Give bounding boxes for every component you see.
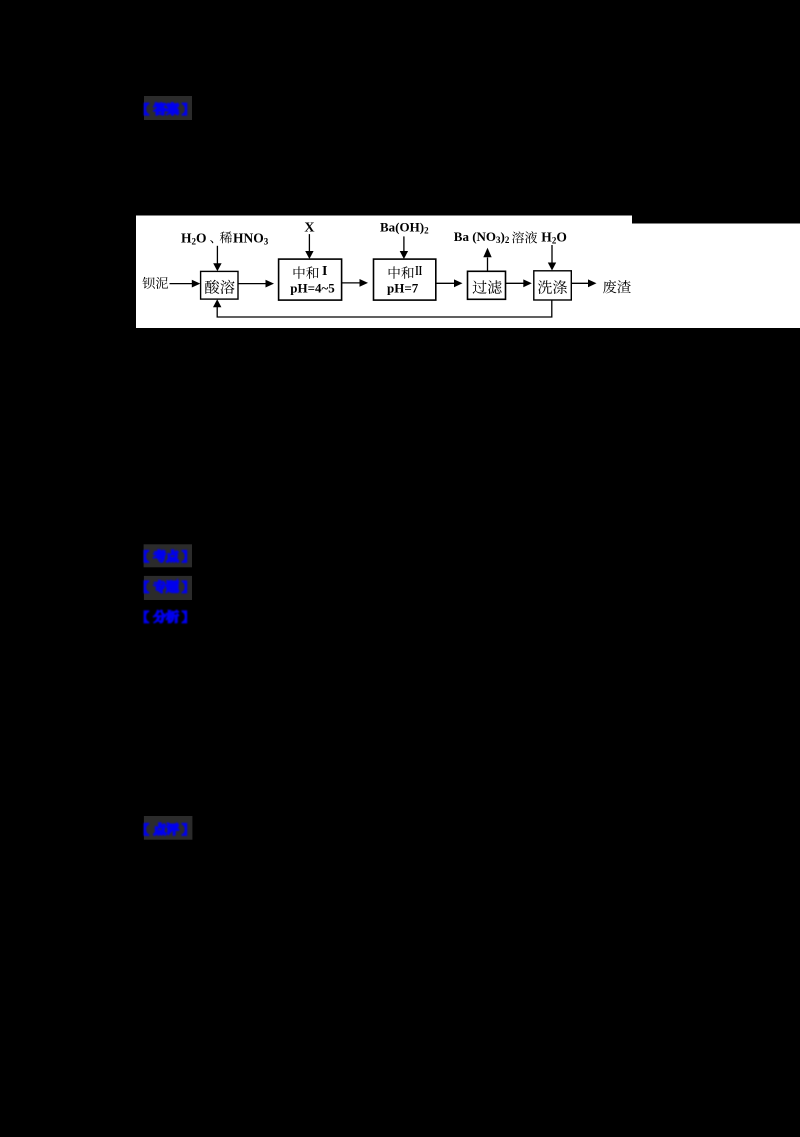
label 【答案】 xyxy=(144,103,186,115)
text 过滤 xyxy=(473,280,487,294)
arrow H2O into 洗涤 xyxy=(551,245,553,263)
label 【点评】 xyxy=(144,823,186,835)
diagram white panel xyxy=(136,216,632,329)
text 中和(II) xyxy=(389,266,400,279)
label 【考点】 highlight bg xyxy=(144,544,192,567)
box 过滤 xyxy=(468,271,506,299)
text 洗涤 xyxy=(538,280,552,294)
right white panel xyxy=(632,224,800,329)
label 【专题】 highlight bg xyxy=(144,576,192,600)
svg-text:X: X xyxy=(304,221,314,236)
recycle loop 洗涤 bottom to 酸溶 bottom xyxy=(217,300,552,317)
label 【点评】 highlight bg xyxy=(144,816,193,840)
label 【考点】 xyxy=(144,550,186,562)
label 【分析】 xyxy=(144,610,186,622)
svg-text:HNO3: HNO3 xyxy=(233,230,269,246)
arrow 中和I to 中和II xyxy=(342,282,360,284)
svg-text:pH=4~5: pH=4~5 xyxy=(290,280,335,295)
box 中和II xyxy=(374,259,436,300)
arrow X into 中和I xyxy=(308,234,310,252)
arrow 酸溶 to 中和I xyxy=(238,283,266,285)
box 酸溶 xyxy=(201,271,238,299)
arrow 洗涤 to 废渣 xyxy=(571,282,588,284)
arrow 钡泥 to 酸溶 xyxy=(170,283,194,285)
arrow 中和II to 过滤 xyxy=(436,282,455,284)
answer label highlight bg xyxy=(144,96,192,120)
label 【专题】 xyxy=(144,580,186,593)
svg-text:II: II xyxy=(415,264,422,279)
svg-text:pH=7: pH=7 xyxy=(387,280,419,295)
svg-text:Ba (NO3)2: Ba (NO3)2 xyxy=(454,229,510,245)
box 洗涤 xyxy=(534,271,572,300)
text 中和(I) xyxy=(294,266,305,279)
punct 、 xyxy=(210,240,213,243)
text 稀 xyxy=(220,231,232,243)
text 酸溶 xyxy=(205,280,219,294)
input text 钡泥 xyxy=(142,277,154,289)
output text 废渣 xyxy=(603,280,616,293)
arrow Ba(OH)2 into 中和II xyxy=(403,236,405,252)
svg-text:Ba(OH)2: Ba(OH)2 xyxy=(380,220,429,236)
arrow 过滤 up to Ba(NO3)2溶液 xyxy=(487,258,489,272)
arrow into 酸溶 top xyxy=(216,246,218,265)
box 中和I xyxy=(279,259,342,300)
text 溶液 xyxy=(512,231,524,243)
svg-text:I: I xyxy=(322,264,327,279)
arrow 过滤 to 洗涤 xyxy=(506,282,524,284)
